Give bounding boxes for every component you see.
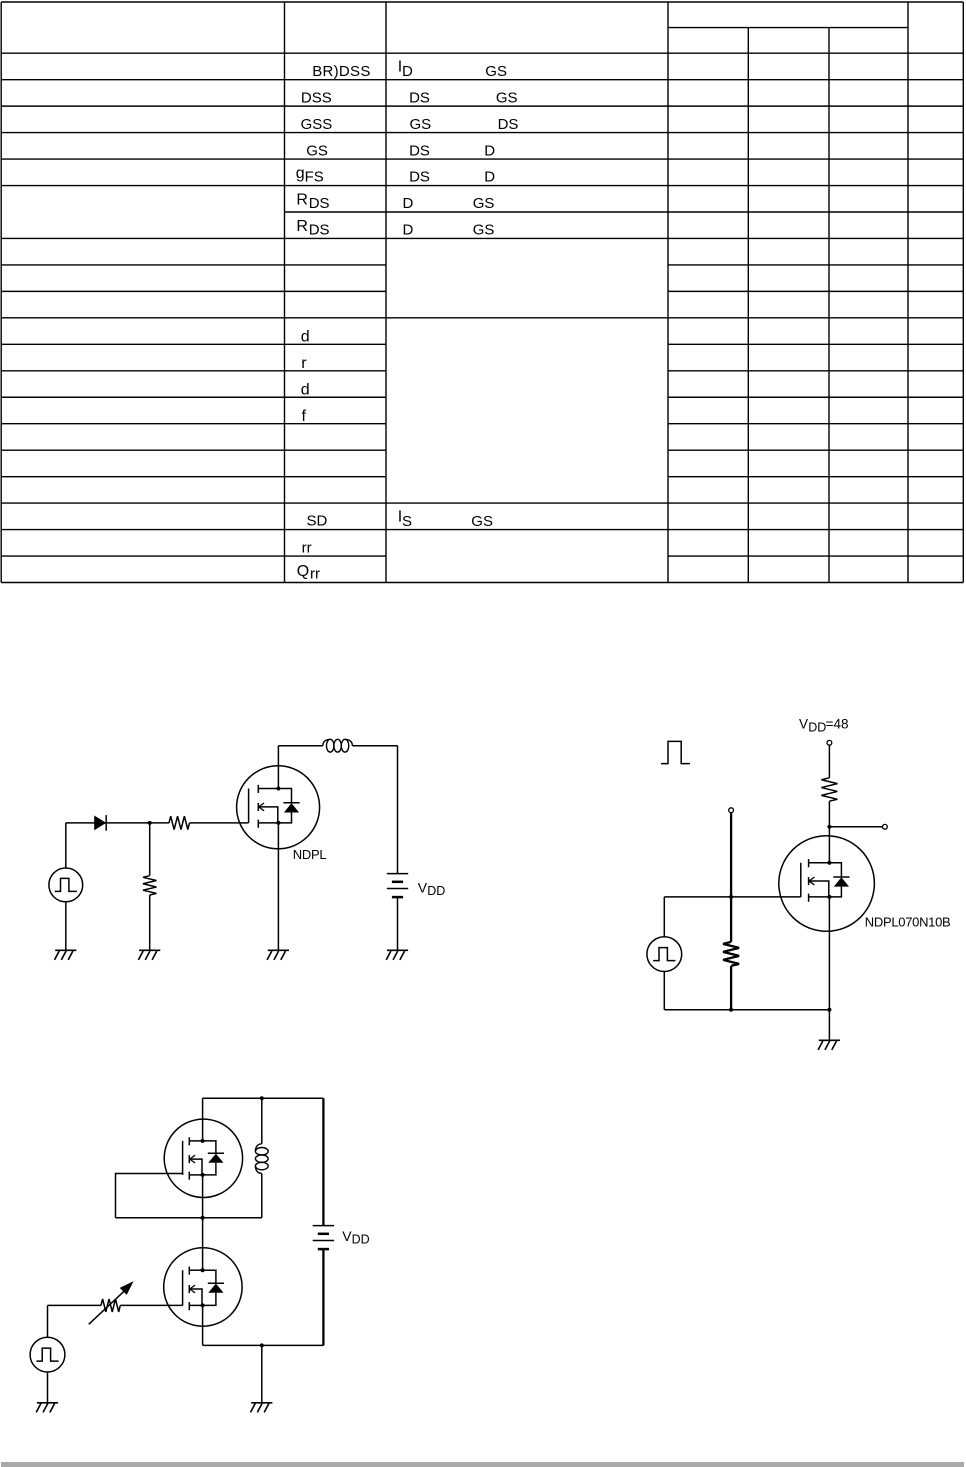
svg-text:DD: DD	[352, 1233, 370, 1247]
svg-text:GS: GS	[485, 63, 507, 80]
svg-text:DS: DS	[498, 116, 519, 133]
svg-text:SD: SD	[307, 512, 328, 529]
svg-text:rr: rr	[310, 565, 320, 582]
svg-text:D: D	[403, 195, 414, 212]
svg-text:d: d	[301, 382, 310, 399]
svg-text:NDPL070N10B: NDPL070N10B	[865, 914, 951, 929]
svg-text:d: d	[301, 329, 310, 346]
svg-text:DD: DD	[427, 884, 445, 898]
svg-text:V: V	[799, 717, 808, 732]
svg-text:GS: GS	[473, 195, 495, 212]
svg-text:g: g	[296, 165, 305, 182]
svg-text:S: S	[402, 513, 412, 530]
svg-text:R: R	[296, 192, 308, 209]
svg-text:D: D	[402, 63, 413, 80]
svg-text:DS: DS	[409, 89, 430, 106]
svg-text:=48: =48	[826, 717, 849, 732]
svg-text:GS: GS	[473, 222, 495, 239]
svg-text:DSS: DSS	[301, 89, 332, 106]
svg-text:DD: DD	[808, 721, 826, 735]
svg-text:GS: GS	[496, 89, 518, 106]
svg-text:GS: GS	[471, 513, 493, 530]
svg-text:Q: Q	[297, 563, 309, 580]
svg-text:GS: GS	[306, 142, 328, 159]
svg-text:D: D	[484, 142, 495, 159]
svg-text:r: r	[301, 355, 307, 372]
svg-text:rr: rr	[302, 540, 312, 557]
svg-text:f: f	[302, 408, 307, 425]
svg-text:D: D	[403, 222, 414, 239]
svg-text:NDPL: NDPL	[293, 847, 327, 862]
svg-text:DS: DS	[309, 222, 330, 239]
svg-text:FS: FS	[305, 169, 324, 186]
svg-text:BR)DSS: BR)DSS	[312, 63, 370, 80]
svg-text:DS: DS	[409, 169, 430, 186]
svg-text:R: R	[296, 218, 308, 235]
svg-text:D: D	[484, 169, 495, 186]
svg-text:GSS: GSS	[301, 116, 333, 133]
svg-text:DS: DS	[309, 195, 330, 212]
svg-text:GS: GS	[410, 116, 432, 133]
svg-text:DS: DS	[409, 142, 430, 159]
